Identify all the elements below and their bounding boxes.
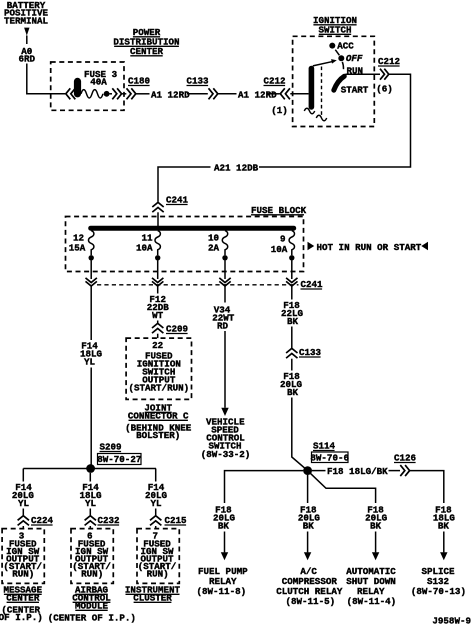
svg-text:TERMINAL: TERMINAL [4, 15, 49, 26]
ignition switch contact bar [309, 66, 315, 110]
tear squiggle at linkage bottom [316, 115, 326, 120]
svg-text:(8W-70-13): (8W-70-13) [411, 586, 466, 597]
svg-text:BK: BK [370, 521, 382, 532]
svg-text:BK: BK [287, 387, 299, 398]
arrow to automatic shut down relay [372, 552, 379, 560]
svg-text:BK: BK [218, 521, 230, 532]
position OFF [338, 53, 363, 64]
wire branch B down [89, 473, 91, 482]
svg-text:2A: 2A [208, 243, 220, 254]
connector C126 [394, 453, 416, 477]
svg-text:(CENTER OF I.P.): (CENTER OF I.P.) [48, 613, 136, 624]
wire C224 to message center [22, 526, 24, 529]
svg-text:6RD: 6RD [19, 53, 36, 64]
message center pin function [3, 539, 42, 580]
joint connector C name [125, 403, 192, 442]
connector C209 [152, 323, 188, 334]
svg-text:(8W-11-5): (8W-11-5) [285, 596, 335, 607]
svg-text:10A: 10A [271, 244, 288, 255]
wire branch B to C232 [89, 509, 91, 516]
svg-text:8W-70-6: 8W-70-6 [310, 453, 349, 464]
splice S209 junction [86, 464, 95, 473]
svg-text:YL: YL [84, 357, 96, 368]
svg-text:RD: RD [217, 321, 229, 332]
fuse 11 10A [136, 231, 160, 261]
label F18 20LG BK a/c [298, 505, 321, 532]
svg-text:YL: YL [18, 498, 30, 509]
fuse 9 10A [271, 231, 295, 261]
svg-text:A1 12RD: A1 12RD [238, 90, 277, 101]
label A0 6RD [19, 46, 36, 64]
arrow to vehicle speed control switch [221, 408, 228, 416]
vehicle speed control switch name [201, 417, 251, 461]
fuse block box [66, 217, 304, 272]
connector C241 chevrons col 11 [152, 278, 163, 286]
label F18 18LG BK splice [433, 505, 456, 532]
svg-text:OFF: OFF [346, 53, 363, 64]
wire C232 to airbag control module [89, 526, 91, 529]
connector C241 chevrons col 12 [86, 278, 97, 286]
wire to C126 [389, 470, 401, 472]
svg-text:10A: 10A [136, 243, 153, 254]
wire to C133 [187, 93, 208, 95]
svg-text:8W-70-27: 8W-70-27 [97, 454, 141, 465]
power distribution center title [113, 27, 179, 57]
svg-text:(6): (6) [376, 84, 393, 95]
a/c compressor clutch relay name [276, 566, 343, 607]
svg-text:(START/RUN): (START/RUN) [128, 383, 189, 394]
svg-text:BK: BK [438, 521, 450, 532]
splice S114 label [310, 441, 349, 464]
wire A0 from battery terminal [26, 36, 28, 45]
fuse 12 15A [69, 231, 94, 261]
label C241 bottom [301, 279, 324, 290]
svg-text:40A: 40A [90, 77, 107, 88]
ignition switch box [293, 36, 375, 126]
connector C212 right side [376, 56, 400, 95]
wire F12 col 11 upper [157, 286, 159, 293]
svg-text:F18 18LG/BK: F18 18LG/BK [327, 466, 388, 477]
svg-text:YL: YL [150, 498, 162, 509]
svg-text:(8W-11-4): (8W-11-4) [347, 596, 397, 607]
label F12 22DB WT [147, 294, 170, 321]
svg-text:START: START [341, 85, 369, 96]
wire branch C down [155, 469, 157, 482]
wire A21 12DB to C241 [158, 167, 211, 202]
connector C215 [150, 515, 187, 526]
power distribution center box [51, 62, 124, 110]
label F18 22LG BK [281, 300, 304, 327]
wire S114 diagonal to automatic shut down relay [311, 474, 376, 503]
label F18 20LG BK col 9 [280, 371, 303, 398]
wire S114 right [312, 470, 326, 472]
wire F12 to C209 [157, 321, 159, 324]
battery positive terminal [4, 0, 49, 36]
airbag control module pin box [71, 529, 113, 584]
detent line ACC to OFF [335, 50, 339, 56]
wire F14 col 12 upper [90, 286, 92, 340]
svg-text:(8W-11-8): (8W-11-8) [196, 586, 246, 597]
arrow to fuel pump relay [221, 552, 228, 560]
svg-text:OF I.P.): OF I.P.) [0, 612, 43, 623]
joint connector C box [126, 338, 191, 399]
connector C212 into ignition switch [264, 76, 290, 117]
airbag control module pin function [72, 539, 111, 580]
wire C215 to instrument cluster [155, 526, 157, 529]
splice S132 name [411, 566, 466, 597]
instrument cluster pin box [137, 529, 179, 584]
svg-text:YL: YL [85, 498, 97, 509]
connector C241 bottom dashed line [97, 284, 299, 286]
connector C133 [187, 76, 218, 100]
svg-text:ACC: ACC [337, 41, 354, 52]
wire F18 to C133 [291, 327, 293, 349]
label F14 18LG YL col 12 [80, 341, 103, 368]
ignition switch wiper arm with arrowhead [313, 59, 337, 66]
fuse 3 40A [74, 69, 118, 98]
wire fuse 11 to connector row [157, 261, 159, 280]
wire to fuel pump relay arrow [224, 532, 226, 553]
svg-text:BK: BK [287, 316, 299, 327]
wire F18 col 9 upper [291, 286, 293, 299]
wire C241 to fuse block bus [157, 212, 159, 226]
ignition switch linkage dashed line [321, 67, 323, 116]
connector C241 chevrons col 10 [219, 278, 230, 286]
position ACC [329, 41, 354, 52]
wire to splice S132 arrow [443, 532, 445, 553]
svg-text:(8W-33-2): (8W-33-2) [201, 449, 251, 460]
wire branch C to C215 [155, 509, 157, 516]
svg-text:RUN): RUN) [147, 569, 169, 580]
connector C133 mid [286, 347, 321, 358]
splice S209 label [97, 442, 141, 466]
message center name [0, 585, 43, 624]
wire C209 to joint connector C [157, 334, 159, 338]
wire C126 to splice S132 column [410, 471, 444, 503]
svg-text:(1): (1) [271, 105, 288, 116]
message center pin box [2, 529, 44, 584]
svg-text:RUN): RUN) [12, 569, 34, 580]
wire to a/c relay arrow [307, 532, 309, 553]
label F18 20LG BK asd [365, 505, 388, 532]
arrow to splice S132 [440, 552, 447, 560]
wire A0 6RD down and right into PDC [27, 64, 66, 94]
connector chevrons out of PDC [112, 88, 121, 99]
fuse block title [251, 205, 307, 216]
svg-text:9: 9 [280, 234, 286, 245]
instrument cluster pin function [138, 539, 177, 580]
wire fuse 10 to connector row [224, 261, 226, 280]
label F14 18LG YL branch B [79, 482, 102, 509]
wire S114 down to a/c compressor clutch relay [307, 475, 309, 503]
splice S114 junction [303, 466, 312, 475]
svg-text:WT: WT [152, 310, 164, 321]
automatic shut down relay name [346, 566, 396, 607]
wire V34 col 10 upper [224, 286, 226, 302]
svg-text:22: 22 [152, 340, 163, 351]
svg-text:A1 12RD: A1 12RD [151, 90, 190, 101]
wire branch A to C224 [22, 509, 24, 516]
label F18 20LG BK fuel pump [213, 505, 236, 532]
tear squiggle at bar bottom [304, 108, 314, 113]
connector C241 chevrons col 9 [286, 278, 297, 286]
arrow to a/c compressor clutch relay [304, 552, 311, 560]
label F14 20LG YL branch C [145, 482, 168, 509]
joint connector C pin function text [128, 351, 189, 394]
ignition switch title [313, 15, 357, 36]
wire V34 down to vehicle speed control switch [224, 331, 226, 408]
wire S209 horizontal [23, 468, 156, 470]
note HOT IN RUN OR START [308, 242, 429, 253]
label F14 20LG YL branch A [12, 482, 35, 509]
wire F18 down to S114 [292, 398, 308, 471]
fuel pump relay name [196, 566, 248, 597]
wire A1 12RD segment 2 [218, 93, 237, 95]
fuse 10 2A [208, 231, 228, 261]
connector C241 top [152, 195, 188, 213]
svg-text:BK: BK [303, 521, 315, 532]
svg-text:BOLSTER): BOLSTER) [136, 430, 180, 441]
wire fuse 9 to connector row [291, 261, 293, 280]
svg-text:15A: 15A [69, 243, 86, 254]
wire into ignition switch [290, 93, 308, 95]
wire S114 left to fuel pump relay column [225, 471, 304, 503]
label V34 22WT RD [212, 305, 235, 332]
detent line OFF to RUN [342, 62, 343, 69]
airbag control module name [48, 585, 136, 624]
connector C224 [18, 515, 54, 526]
fuse block bus bar [88, 226, 296, 231]
wire C133 down [291, 359, 293, 371]
connector C232 [85, 515, 120, 526]
connector chevrons into PDC [66, 88, 76, 99]
wire to C212 [268, 93, 280, 95]
wire fuse 12 to connector row [90, 261, 92, 280]
svg-text:J958W-9: J958W-9 [432, 616, 471, 627]
wire to C180 [122, 93, 126, 95]
start lever [334, 76, 345, 90]
wire from C212 down to A21 run [259, 74, 411, 167]
svg-text:RUN): RUN) [81, 569, 103, 580]
connector C180 [127, 76, 151, 100]
wire to asd relay arrow [375, 532, 377, 553]
svg-text:HOT IN RUN OR START: HOT IN RUN OR START [317, 242, 422, 253]
wire F14 col 12 lower to S209 [90, 368, 92, 466]
wire A1 12RD segment 1 [136, 93, 150, 95]
instrument cluster name [125, 585, 181, 604]
wire branch A down [22, 469, 24, 482]
wire RUN contact to C212 right [345, 73, 380, 75]
svg-text:A21 12DB: A21 12DB [214, 163, 259, 174]
